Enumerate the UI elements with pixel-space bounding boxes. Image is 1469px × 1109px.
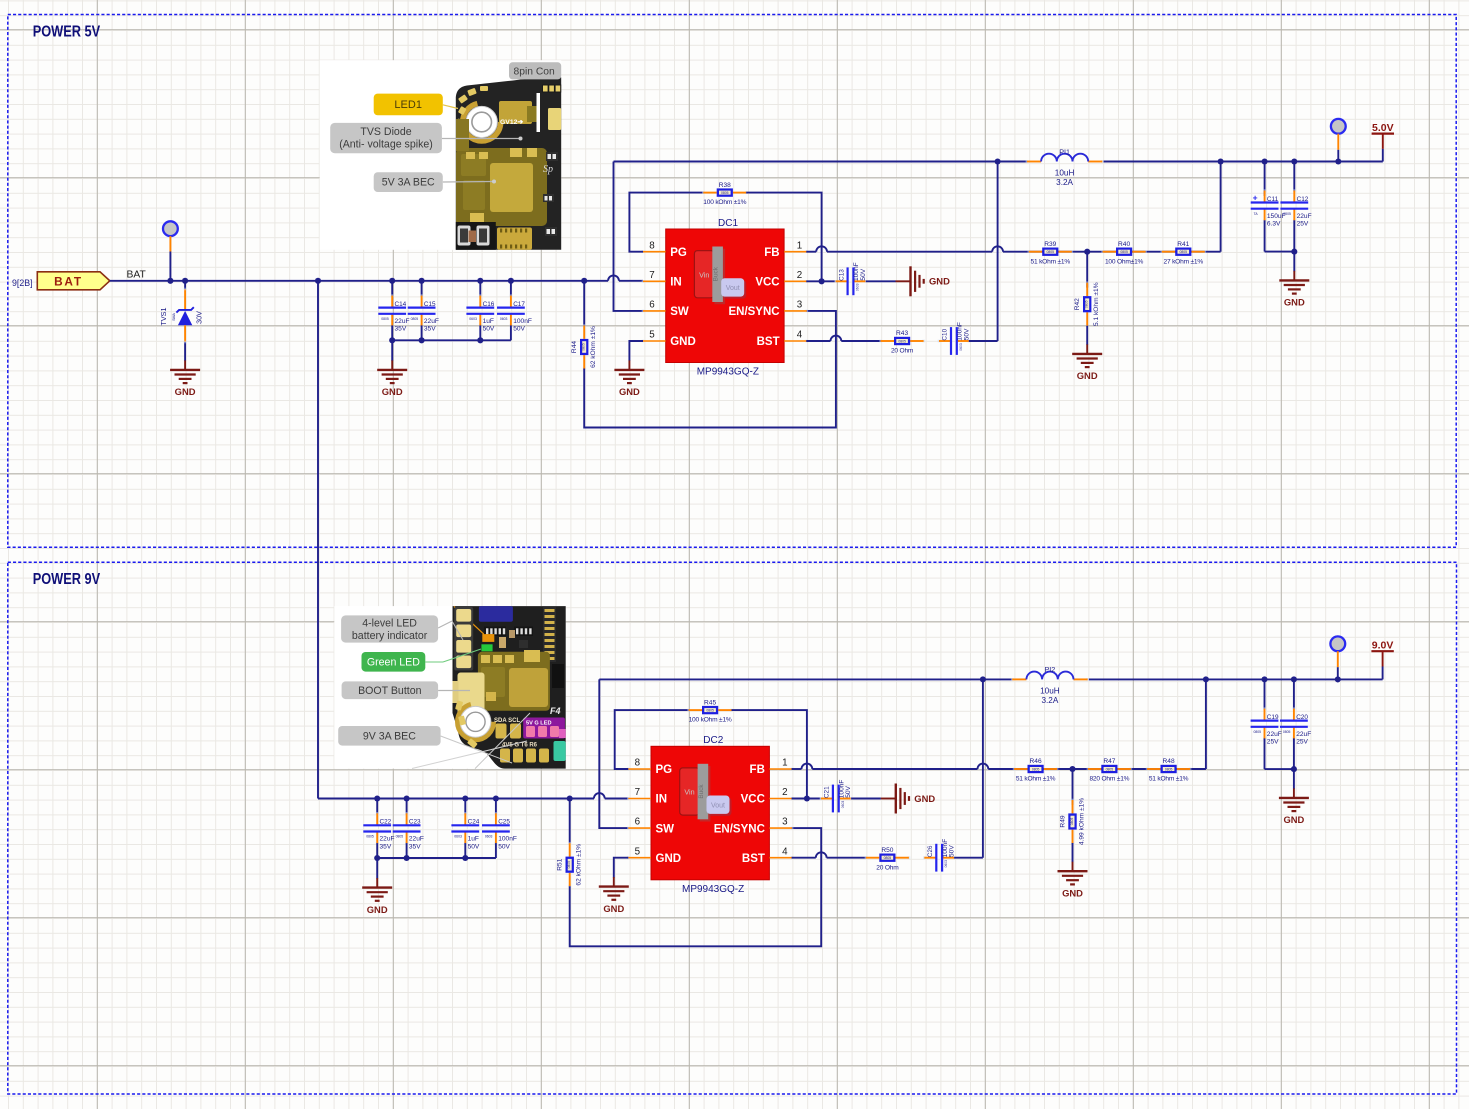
svg-text:0805: 0805 <box>1047 250 1055 254</box>
section title POWER 5V <box>33 24 101 41</box>
svg-text:1: 1 <box>797 240 802 251</box>
svg-text:5: 5 <box>649 330 655 341</box>
wire C10 to SW rail riser <box>969 162 998 342</box>
svg-text:C25: C25 <box>498 819 510 826</box>
svg-text:SW: SW <box>670 306 689 318</box>
power flag 5.0V <box>1372 122 1394 149</box>
svg-text:LED1: LED1 <box>394 99 422 111</box>
wire BAT rail <box>110 280 643 282</box>
svg-text:22uF: 22uF <box>424 318 439 325</box>
svg-text:GND: GND <box>914 793 935 804</box>
svg-text:8pin Con: 8pin Con <box>514 66 555 77</box>
wire 5V output cap C12 top lead <box>1293 162 1295 191</box>
ground below pin 5 <box>614 360 644 397</box>
svg-text:R43: R43 <box>896 330 908 337</box>
svg-text:C22: C22 <box>380 819 392 826</box>
svg-text:35V: 35V <box>409 843 421 850</box>
capacitor C19 22uF 25V <box>1251 707 1282 745</box>
svg-text:25V: 25V <box>1296 739 1308 746</box>
svg-text:Vin: Vin <box>684 788 694 797</box>
svg-text:100nF: 100nF <box>513 318 532 325</box>
svg-text:1uF: 1uF <box>483 318 494 325</box>
section title POWER 9V <box>33 571 101 588</box>
svg-text:IN: IN <box>670 277 682 289</box>
resistor R43 20 Ohm <box>879 330 925 354</box>
svg-text:0805: 0805 <box>1254 730 1262 734</box>
junction 9Vin/C24 <box>462 795 468 801</box>
svg-text:TVS1: TVS1 <box>159 308 168 326</box>
wire SW riser <box>614 162 644 311</box>
wire C15 top lead <box>421 281 423 296</box>
svg-text:R47: R47 <box>1103 758 1115 765</box>
capacitor C21 100nF 50V <box>820 780 853 813</box>
wire C22 top lead <box>376 799 378 814</box>
wire port P2 stub <box>1337 134 1339 162</box>
photo insert: 5V BEC PCB with callouts (LED1, TVS Diode, 5V 3A BEC, 8pin Connector) <box>320 60 562 250</box>
junction SW rail / BST riser <box>995 158 1001 164</box>
port circle P2 (5V output) <box>1331 119 1346 134</box>
svg-text:GND: GND <box>382 386 403 397</box>
svg-text:+: + <box>1253 192 1258 202</box>
port circle P3 (9V output) <box>1330 636 1345 651</box>
capacitor C23 22uF 35V <box>393 812 424 850</box>
svg-text:22uF: 22uF <box>1267 731 1282 738</box>
svg-text:SMA: SMA <box>172 313 176 321</box>
section frame POWER 9V (dashed) <box>8 562 1457 1094</box>
svg-text:20 Ohm: 20 Ohm <box>876 864 899 871</box>
capacitor C22 22uF 35V <box>363 812 394 850</box>
svg-text:3.2A: 3.2A <box>1041 696 1058 705</box>
wire hop FB over BST riser <box>992 246 1003 251</box>
svg-text:51 kOhm ±1%: 51 kOhm ±1% <box>1016 776 1056 783</box>
wire R44 to EN/SYNC <box>584 311 836 428</box>
svg-text:0805: 0805 <box>366 835 374 839</box>
svg-text:9V 3A BEC: 9V 3A BEC <box>363 731 416 743</box>
svg-text:C11: C11 <box>1267 196 1279 203</box>
ground below C12 <box>1279 271 1309 308</box>
svg-text:100nF: 100nF <box>498 836 517 843</box>
svg-text:0805: 0805 <box>381 317 389 321</box>
wire hop FB over R45/VCC riser (9V) <box>802 764 813 769</box>
svg-text:BAT: BAT <box>54 274 83 288</box>
svg-text:GV12➔: GV12➔ <box>500 119 523 126</box>
junction 9V capbank C24 <box>462 855 468 861</box>
svg-text:Buck: Buck <box>713 266 720 281</box>
ground below 9V input caps <box>362 878 392 915</box>
wire 9.0V flag lead <box>1382 667 1384 680</box>
svg-text:GND: GND <box>670 336 696 348</box>
svg-text:62 kOhm ±1%: 62 kOhm ±1% <box>576 844 583 886</box>
svg-text:Vin: Vin <box>699 270 709 279</box>
junction switch rail / R41 riser <box>1218 158 1224 164</box>
svg-text:5V G LED: 5V G LED <box>526 721 552 727</box>
wire FB line <box>806 162 1220 252</box>
wire C20 bottom lead <box>1293 738 1295 789</box>
resistor R44 62 kOhm (EN divider) <box>571 281 597 370</box>
svg-text:8: 8 <box>635 758 641 769</box>
wire C25 top lead <box>495 799 497 814</box>
svg-text:R41: R41 <box>1177 241 1189 248</box>
svg-text:3: 3 <box>782 817 788 828</box>
wire hop FB over BST riser (9V) <box>978 764 989 769</box>
svg-text:0805: 0805 <box>898 339 906 343</box>
wire port P3 stub <box>1337 651 1339 679</box>
svg-text:C12: C12 <box>1297 196 1309 203</box>
svg-text:62 kOhm ±1%: 62 kOhm ±1% <box>590 326 597 368</box>
resistor R41 27 kOhm <box>1161 241 1207 265</box>
svg-text:C14: C14 <box>395 301 407 308</box>
capacitor C13 100nF 50V <box>834 262 867 295</box>
svg-text:PG: PG <box>656 764 673 776</box>
svg-text:C21: C21 <box>824 786 831 798</box>
svg-text:22uF: 22uF <box>1297 213 1312 220</box>
svg-text:51 kOhm ±1%: 51 kOhm ±1% <box>1031 258 1071 265</box>
junction 9Vrail/C20 <box>1291 676 1297 682</box>
wire C17 bottom lead <box>510 325 512 340</box>
svg-text:4: 4 <box>782 846 788 857</box>
TVS diode TVS1 30V <box>159 281 204 361</box>
capacitor C20 22uF 25V <box>1280 707 1311 745</box>
junction BAT/R44 <box>581 278 587 284</box>
svg-text:R48: R48 <box>1163 758 1175 765</box>
svg-text:4: 4 <box>797 330 803 341</box>
resistor R42 5.1 kOhm (FB divider) <box>1074 252 1100 345</box>
wire VCC to C21 (9V) <box>792 798 821 800</box>
svg-text:0805: 0805 <box>1032 767 1040 771</box>
svg-text:0805: 0805 <box>1120 250 1128 254</box>
wire C24 top lead <box>464 799 466 814</box>
wire C12 bottom lead <box>1293 220 1295 271</box>
svg-text:25V: 25V <box>1267 739 1279 746</box>
svg-text:FB: FB <box>750 764 765 776</box>
svg-text:0805: 0805 <box>721 191 729 195</box>
svg-text:50V: 50V <box>845 785 852 797</box>
wire hop on BAT rail over SW riser <box>608 275 619 280</box>
svg-text:C16: C16 <box>483 301 495 308</box>
wire GND pin5 lead <box>629 341 643 361</box>
wire hop BST over EN riser (9V) <box>816 852 827 857</box>
wire C14 bottom lead <box>391 325 393 340</box>
resistor R39 51 kOhm <box>1028 241 1074 265</box>
svg-text:C24: C24 <box>468 819 480 826</box>
svg-text:Buck: Buck <box>698 784 705 799</box>
svg-text:BOOT Button: BOOT Button <box>358 685 422 697</box>
svg-text:0603: 0603 <box>500 317 508 321</box>
svg-text:GND: GND <box>1062 887 1083 898</box>
svg-text:50V: 50V <box>498 843 510 850</box>
svg-text:8: 8 <box>649 240 655 251</box>
wire 9V input rail <box>318 798 628 800</box>
wire 9V input-cap ground rail <box>377 858 496 879</box>
junction 9V capbank C22 <box>374 855 380 861</box>
wire C24 bottom lead <box>464 843 466 858</box>
junction BAT/C15 <box>419 278 425 284</box>
wire 9V output cap C19 top lead <box>1264 679 1266 708</box>
svg-text:9.0V: 9.0V <box>1372 639 1394 651</box>
wire branch to POWER 9V section <box>317 281 319 799</box>
svg-text:4.99 kOhm ±1%: 4.99 kOhm ±1% <box>1078 798 1085 845</box>
section frame POWER 5V (dashed) <box>8 15 1456 548</box>
capacitor C16 1uF 50V <box>466 294 495 332</box>
wire C25 bottom lead <box>495 843 497 858</box>
svg-text:22uF: 22uF <box>409 836 424 843</box>
svg-text:Sp: Sp <box>543 164 553 175</box>
svg-text:GND: GND <box>175 386 196 397</box>
svg-text:0603: 0603 <box>469 317 477 321</box>
svg-text:0603: 0603 <box>856 283 860 291</box>
svg-text:0805: 0805 <box>706 709 714 713</box>
inductor PI2 10uH 3.2A <box>1011 665 1089 705</box>
capacitor C17 100nF 50V <box>497 294 532 332</box>
wire input-cap ground rail <box>392 340 511 361</box>
capacitor C10 100nF 50V (bootstrap) <box>938 322 971 355</box>
svg-text:R49: R49 <box>1059 815 1066 827</box>
wire C22 bottom lead <box>376 843 378 858</box>
svg-text:GND: GND <box>929 276 950 287</box>
ground (sideways) at C13 <box>896 266 951 296</box>
svg-text:BAT: BAT <box>127 269 147 280</box>
ground below R49 <box>1058 862 1088 899</box>
svg-text:(Anti- voltage spike): (Anti- voltage spike) <box>339 138 433 150</box>
svg-text:Vout: Vout <box>726 285 740 292</box>
port BAT flag <box>37 272 110 290</box>
svg-text:VCC: VCC <box>755 277 779 289</box>
wire 9V output cap C20 top lead <box>1293 679 1295 708</box>
svg-text:C19: C19 <box>1267 714 1279 721</box>
svg-text:6: 6 <box>635 817 641 828</box>
junction VCC node (9V) <box>804 795 810 801</box>
svg-text:100 Ohm±1%: 100 Ohm±1% <box>1105 258 1144 265</box>
svg-text:battery indicator: battery indicator <box>352 630 428 642</box>
inductor PI1 10uH 3.2A <box>1026 147 1104 187</box>
svg-text:0603: 0603 <box>841 801 845 809</box>
svg-text:POWER 9V: POWER 9V <box>33 571 101 588</box>
ground below input caps <box>377 360 407 397</box>
svg-text:C20: C20 <box>1296 714 1308 721</box>
svg-text:C26: C26 <box>927 845 934 857</box>
svg-text:1: 1 <box>782 758 787 769</box>
junction 9Vin/C25 <box>493 795 499 801</box>
junction BAT/C14 <box>389 278 395 284</box>
capacitor C15 22uF 35V <box>408 294 439 332</box>
svg-text:100 kOhm ±1%: 100 kOhm ±1% <box>689 717 732 724</box>
ground below C20 <box>1279 788 1309 825</box>
resistor R49 4.99 kOhm (FB divider) <box>1059 769 1085 862</box>
svg-text:22uF: 22uF <box>395 318 410 325</box>
svg-text:50V: 50V <box>468 843 480 850</box>
svg-text:C15: C15 <box>424 301 436 308</box>
wire 5V switch-node rail <box>614 161 1383 163</box>
resistor R48 51 kOhm <box>1146 758 1192 782</box>
svg-text:R45: R45 <box>704 699 716 706</box>
svg-text:PI1: PI1 <box>1059 147 1070 156</box>
wire PG loop to R38 <box>629 193 703 252</box>
svg-text:C17: C17 <box>513 301 525 308</box>
svg-text:50V: 50V <box>949 845 956 857</box>
wire hop FB over R38/VCC riser <box>816 246 827 251</box>
svg-text:50V: 50V <box>860 268 867 280</box>
svg-text:DC1: DC1 <box>718 218 738 229</box>
wire C23 bottom lead <box>406 843 408 858</box>
wire BST line (9V) <box>792 857 866 859</box>
junction 9V rail / BST riser <box>980 676 986 682</box>
wire GND pin5 lead (9V) <box>614 858 629 878</box>
wire R51 to EN/SYNC (9V) <box>570 828 822 946</box>
junction FB/R49 <box>1069 766 1075 772</box>
wire SW riser (9V) <box>599 679 628 828</box>
svg-text:R50: R50 <box>881 847 893 854</box>
wire 5V output cap C11 top lead <box>1264 162 1266 196</box>
resistor R47 820 Ohm <box>1087 758 1133 782</box>
svg-text:0603: 0603 <box>944 860 948 868</box>
svg-text:Green LED: Green LED <box>367 656 420 668</box>
svg-text:4-level LED: 4-level LED <box>362 618 417 630</box>
svg-text:30V: 30V <box>195 311 204 324</box>
svg-text:R44: R44 <box>571 341 578 353</box>
op IC DC2 MP9943GQ-Z buck converter <box>627 735 793 895</box>
net label BAT <box>127 269 147 280</box>
svg-text:10uH: 10uH <box>1040 687 1060 696</box>
svg-text:POWER 5V: POWER 5V <box>33 24 101 41</box>
svg-text:0805: 0805 <box>567 861 571 869</box>
junction FB/R42 <box>1084 249 1090 255</box>
wire C11 bottom lead <box>1265 220 1295 251</box>
wire BST line <box>806 340 880 342</box>
svg-text:GND: GND <box>656 853 682 865</box>
wire C16 top lead <box>479 281 481 296</box>
op IC DC1 MP9943GQ-Z buck converter <box>642 218 808 378</box>
svg-text:PI2: PI2 <box>1045 665 1056 674</box>
resistor R46 51 kOhm <box>1013 758 1059 782</box>
svg-text:SW: SW <box>656 823 675 835</box>
svg-text:0805: 0805 <box>1283 730 1291 734</box>
svg-text:R39: R39 <box>1044 241 1056 248</box>
svg-text:GND: GND <box>1283 814 1304 825</box>
svg-text:F4: F4 <box>550 706 561 716</box>
wire 9V switch-node rail <box>599 678 1382 680</box>
svg-text:0805: 0805 <box>1165 767 1173 771</box>
svg-text:27 kOhm ±1%: 27 kOhm ±1% <box>1164 258 1204 265</box>
svg-text:MP9943GQ-Z: MP9943GQ-Z <box>682 884 744 895</box>
capacitor C11 150uF 6.3V (polarized) <box>1251 189 1286 227</box>
svg-text:R46: R46 <box>1030 758 1042 765</box>
wire C17 top lead <box>510 281 512 296</box>
svg-text:6: 6 <box>649 300 655 311</box>
svg-text:C23: C23 <box>409 819 421 826</box>
wire R38 to VCC node <box>746 193 821 282</box>
wire VCC to C13 <box>806 280 835 282</box>
junction 9V output caps ground node <box>1291 766 1297 772</box>
wire C23 top lead <box>406 799 408 814</box>
svg-text:DC2: DC2 <box>703 735 723 746</box>
junction 9Vrail/C19 <box>1261 676 1267 682</box>
svg-text:R38: R38 <box>719 182 731 189</box>
svg-text:5: 5 <box>635 846 641 857</box>
svg-text:GND: GND <box>1077 370 1098 381</box>
svg-text:FB: FB <box>764 247 779 259</box>
wire C13 to ground <box>866 280 896 282</box>
wire port P1 stub <box>169 236 171 281</box>
svg-text:GND: GND <box>367 904 388 915</box>
svg-text:0805: 0805 <box>582 343 586 351</box>
wire C16 bottom lead <box>479 325 481 340</box>
junction rail/P2 <box>1335 158 1341 164</box>
junction BAT/port <box>167 278 173 284</box>
svg-text:SDA SCL: SDA SCL <box>494 718 520 724</box>
svg-text:BST: BST <box>757 336 780 348</box>
wire FB line (9V) <box>792 679 1206 769</box>
ground below R42 <box>1072 344 1102 381</box>
capacitor C14 22uF 35V <box>378 294 409 332</box>
svg-text:0805: 0805 <box>1106 767 1114 771</box>
ground below pin 5 (9V) <box>599 877 629 914</box>
junction BAT/TVS1 <box>182 278 188 284</box>
resistor R45 100 kOhm <box>687 699 733 723</box>
svg-text:2: 2 <box>797 270 802 281</box>
junction 9V rail / R48 riser <box>1203 676 1209 682</box>
svg-text:MP9943GQ-Z: MP9943GQ-Z <box>697 367 759 378</box>
port ref text 9[2B] <box>12 278 33 288</box>
junction 9V capbank C23 <box>404 855 410 861</box>
svg-text:2: 2 <box>782 787 787 798</box>
junction capbank C14 <box>389 337 395 343</box>
wire C26 to SW rail riser (9V) <box>954 679 983 857</box>
capacitor C25 100nF 50V <box>482 812 517 850</box>
svg-text:0805: 0805 <box>1180 250 1188 254</box>
svg-text:0603: 0603 <box>485 835 493 839</box>
svg-text:35V: 35V <box>380 843 392 850</box>
wire hop BST over EN riser <box>831 336 842 341</box>
svg-text:R40: R40 <box>1118 241 1130 248</box>
svg-text:EN/SYNC: EN/SYNC <box>714 823 765 835</box>
svg-text:0603: 0603 <box>959 343 963 351</box>
wire R45 to VCC node (9V) <box>732 710 807 798</box>
wire 5.0V flag lead <box>1382 149 1384 162</box>
junction BAT/C17 <box>508 278 514 284</box>
svg-text:22uF: 22uF <box>1296 731 1311 738</box>
svg-text:22uF: 22uF <box>380 836 395 843</box>
svg-text:20 Ohm: 20 Ohm <box>891 348 914 355</box>
svg-text:3: 3 <box>797 300 803 311</box>
svg-text:50V: 50V <box>963 328 970 340</box>
wire C19 bottom lead <box>1265 738 1294 769</box>
svg-text:GND: GND <box>1284 297 1305 308</box>
photo insert: 9V BEC PCB with callouts (battery indicator, Green LED, BOOT Button, 9V 3A BEC) <box>334 606 565 769</box>
svg-text:0805: 0805 <box>1283 212 1291 216</box>
resistor R50 20 Ohm <box>865 847 911 871</box>
svg-text:7: 7 <box>635 787 640 798</box>
svg-text:50V: 50V <box>513 326 525 333</box>
svg-text:51 kOhm ±1%: 51 kOhm ±1% <box>1149 776 1189 783</box>
wire C15 bottom lead <box>421 325 423 340</box>
svg-text:VCC: VCC <box>741 794 765 806</box>
wire C21 to ground <box>851 798 881 800</box>
svg-text:0805: 0805 <box>411 317 419 321</box>
wire hop on 9V rail over SW riser <box>594 793 605 798</box>
junction BAT/9V-branch <box>315 278 321 284</box>
svg-text:GND: GND <box>603 903 624 914</box>
svg-text:0805: 0805 <box>1085 300 1089 308</box>
svg-text:TA: TA <box>1254 212 1259 216</box>
power flag 9.0V <box>1371 639 1393 666</box>
svg-text:TVS Diode: TVS Diode <box>360 126 411 138</box>
capacitor C24 1uF 50V <box>451 812 480 850</box>
resistor R38 100 kOhm <box>702 182 748 206</box>
junction rail/C12 <box>1291 158 1297 164</box>
junction capbank C15 <box>419 337 425 343</box>
svg-text:5.1 kOhm ±1%: 5.1 kOhm ±1% <box>1093 282 1100 326</box>
junction 9Vin/C22 <box>374 795 380 801</box>
